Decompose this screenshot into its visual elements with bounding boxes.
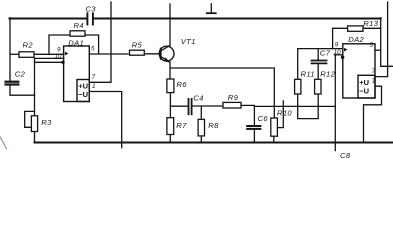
svg-text:C7: C7 xyxy=(320,48,331,57)
svg-text:−U: −U xyxy=(78,90,88,99)
svg-text:C8: C8 xyxy=(340,151,351,158)
svg-text:R7: R7 xyxy=(176,121,187,130)
svg-text:7: 7 xyxy=(92,74,96,81)
svg-text:VT1: VT1 xyxy=(181,37,196,46)
svg-text:R5: R5 xyxy=(132,41,143,50)
svg-text:7: 7 xyxy=(372,68,376,75)
svg-text:R12: R12 xyxy=(320,69,335,78)
svg-text:−U: −U xyxy=(359,87,369,96)
svg-text:R8: R8 xyxy=(208,121,219,130)
svg-text:C3: C3 xyxy=(86,4,97,13)
svg-text:5: 5 xyxy=(369,42,373,49)
svg-text:C6: C6 xyxy=(258,114,269,123)
svg-text:1: 1 xyxy=(372,77,376,84)
svg-text:DA1: DA1 xyxy=(68,38,84,47)
svg-text:+U: +U xyxy=(359,78,369,87)
svg-text:R4: R4 xyxy=(74,21,84,30)
svg-text:1: 1 xyxy=(92,83,96,90)
svg-text:DA2: DA2 xyxy=(348,35,364,44)
svg-text:R9: R9 xyxy=(228,93,239,102)
svg-text:R6: R6 xyxy=(176,80,187,89)
svg-text:10: 10 xyxy=(55,53,63,60)
svg-text:10: 10 xyxy=(334,49,342,56)
svg-text:R2: R2 xyxy=(23,41,34,50)
svg-text:C4: C4 xyxy=(193,93,203,102)
svg-text:9: 9 xyxy=(335,42,339,49)
svg-text:R11: R11 xyxy=(301,69,315,78)
svg-text:R3: R3 xyxy=(41,118,52,127)
svg-text:R10: R10 xyxy=(277,108,292,117)
svg-text:5: 5 xyxy=(91,46,95,53)
svg-text:C2: C2 xyxy=(15,70,26,79)
svg-text:R13: R13 xyxy=(363,19,378,28)
